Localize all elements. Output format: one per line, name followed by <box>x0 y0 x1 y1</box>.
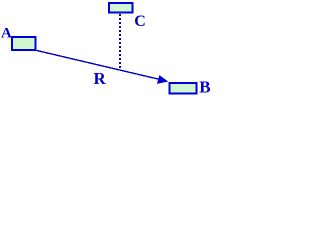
svg-text:A: A <box>1 26 12 42</box>
arrowhead of edge pointing at node B <box>157 75 168 84</box>
node A box <box>12 37 36 50</box>
node B box <box>170 83 197 94</box>
dotted line from node C to edge R <box>119 14 121 70</box>
svg-text:R: R <box>94 69 107 88</box>
wire: edge from node A to node B <box>36 50 166 81</box>
svg-text:B: B <box>199 78 210 97</box>
svg-text:C: C <box>134 13 146 30</box>
node C box <box>109 3 133 13</box>
